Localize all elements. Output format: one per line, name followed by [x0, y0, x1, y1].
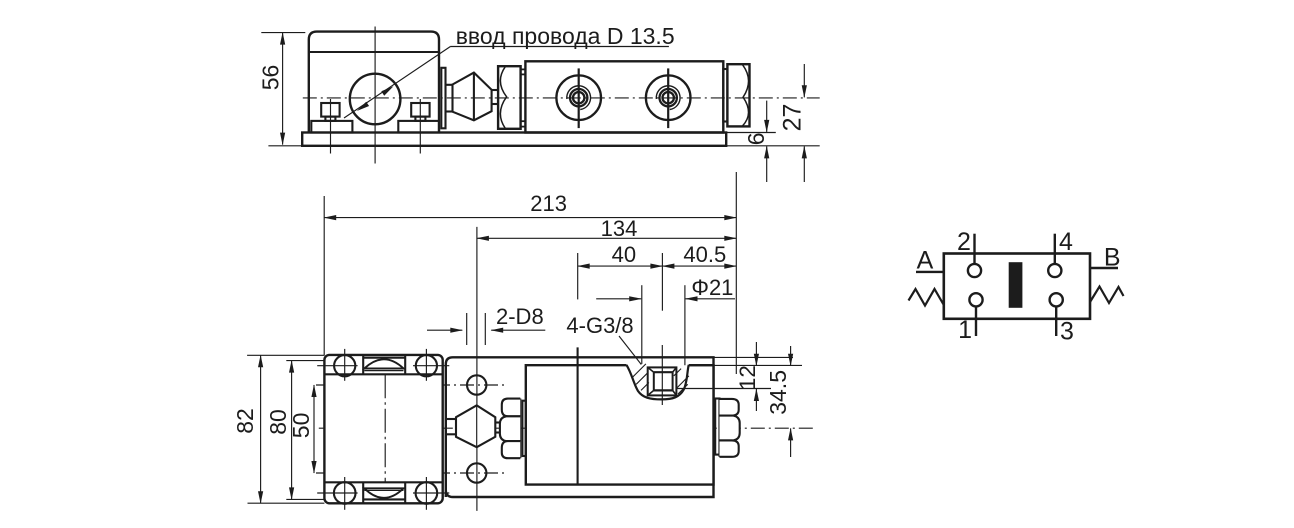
svg-text:B: B: [1104, 244, 1121, 272]
svg-text:6: 6: [743, 132, 769, 145]
svg-text:56: 56: [258, 65, 284, 91]
svg-text:82: 82: [232, 408, 258, 434]
svg-text:34.5: 34.5: [765, 370, 791, 415]
svg-text:4: 4: [1059, 228, 1073, 256]
svg-text:2: 2: [957, 228, 971, 256]
svg-text:ввод провода D 13.5: ввод провода D 13.5: [456, 23, 675, 49]
svg-text:1: 1: [958, 316, 972, 344]
svg-text:27: 27: [778, 104, 806, 132]
svg-text:40.5: 40.5: [683, 242, 726, 267]
svg-text:A: A: [917, 246, 934, 274]
svg-text:Φ21: Φ21: [691, 275, 733, 300]
svg-text:2-D8: 2-D8: [496, 304, 544, 329]
svg-text:4-G3/8: 4-G3/8: [566, 313, 633, 338]
svg-text:213: 213: [530, 191, 567, 216]
svg-text:134: 134: [601, 216, 638, 241]
svg-text:3: 3: [1060, 318, 1074, 346]
svg-text:40: 40: [612, 242, 636, 267]
svg-text:12: 12: [735, 365, 760, 390]
svg-text:50: 50: [288, 413, 314, 439]
